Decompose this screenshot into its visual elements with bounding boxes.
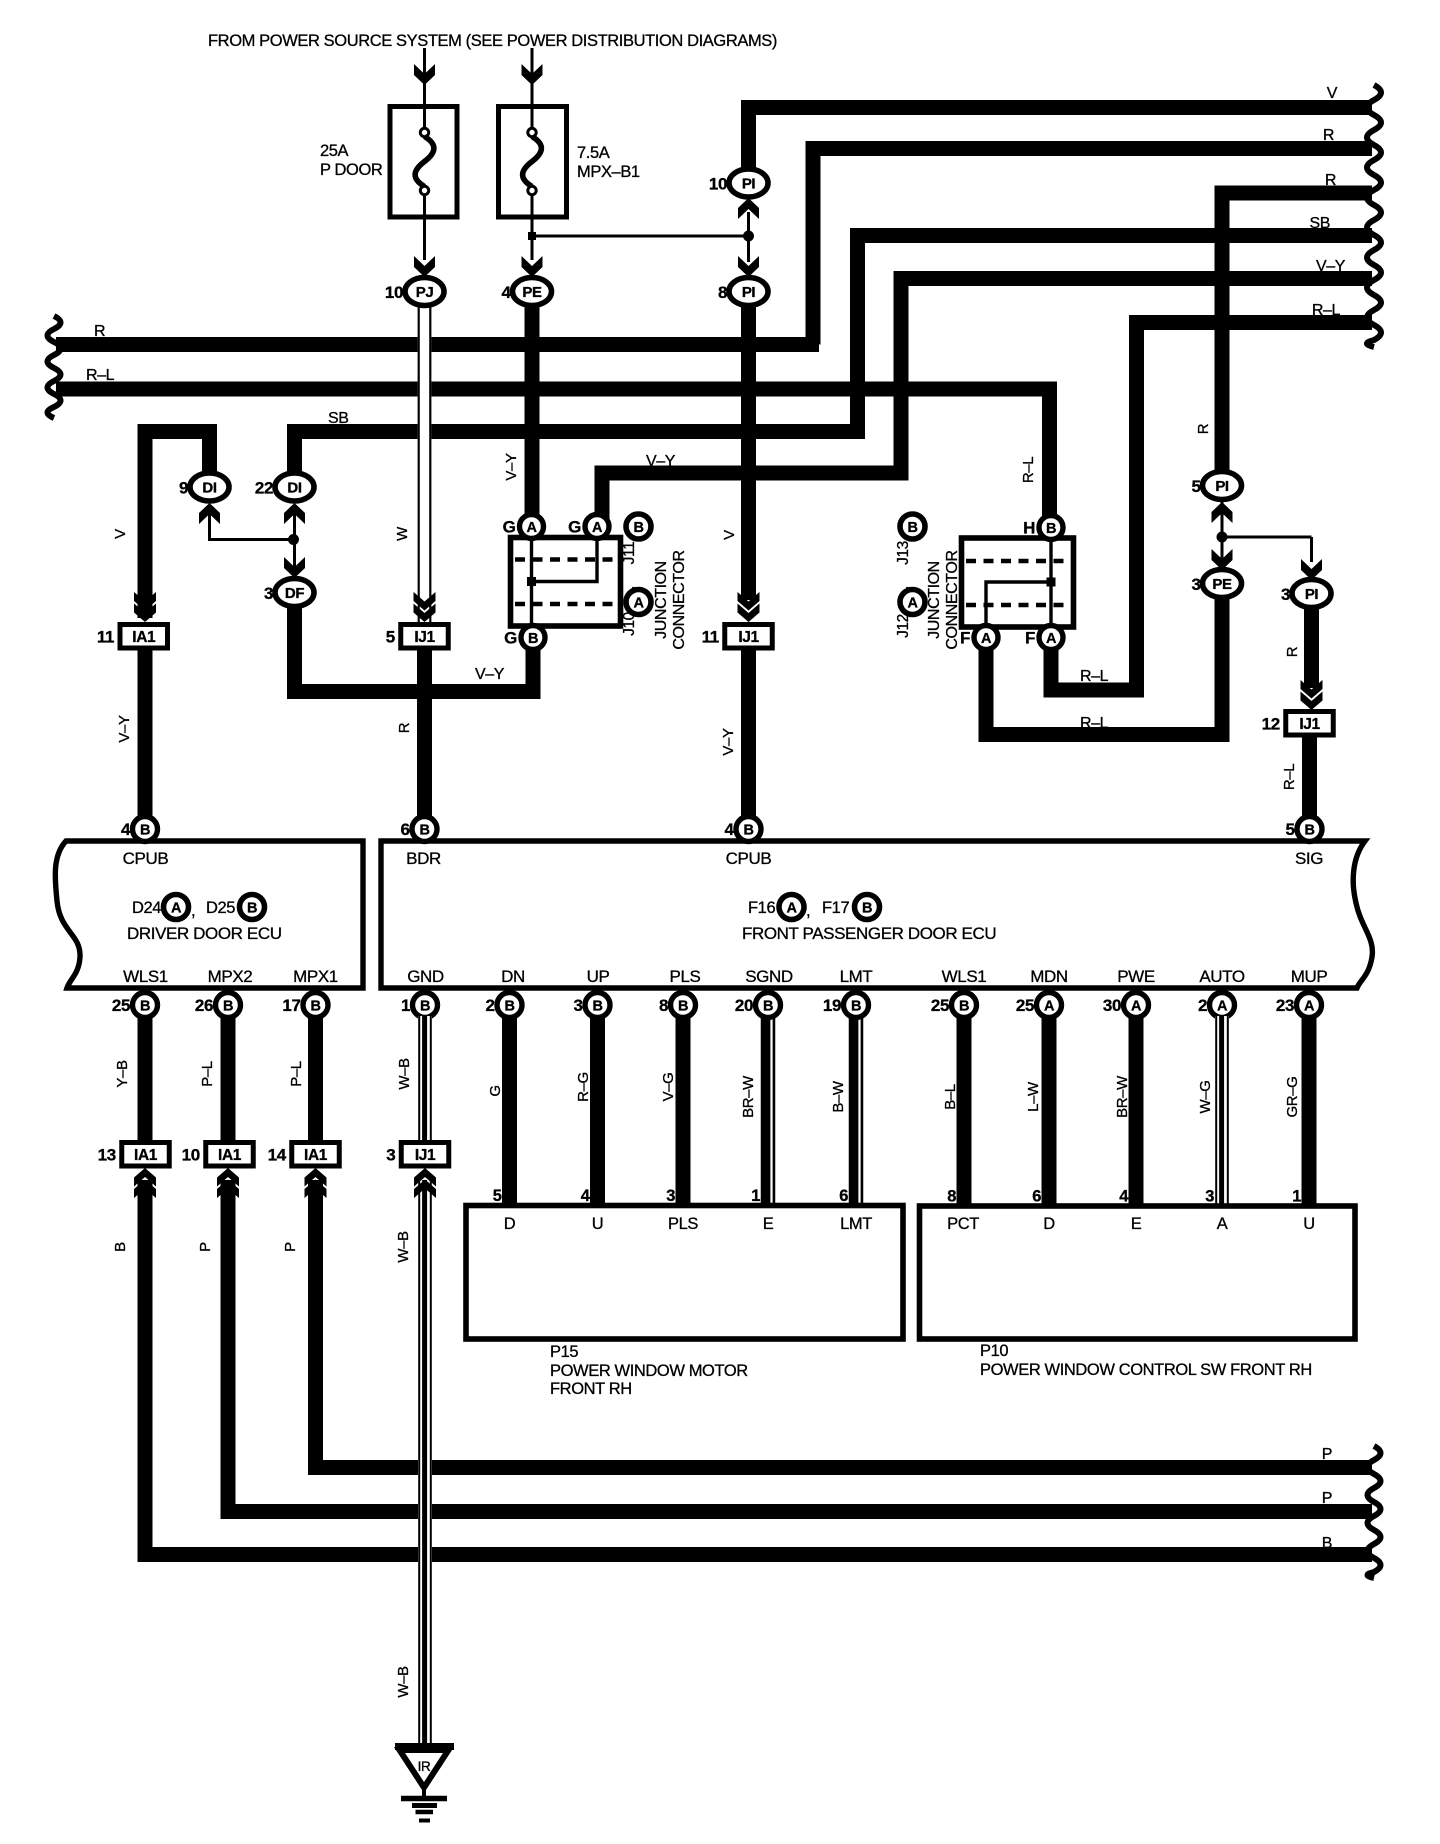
svg-text:30: 30 [1103,996,1121,1015]
svg-text:1: 1 [401,996,410,1015]
svg-text:R–L: R–L [1080,668,1109,685]
svg-text:DI: DI [202,480,216,497]
arrow up into connector 9 DI [199,503,220,524]
svg-text:8: 8 [659,996,668,1015]
svg-text:3: 3 [573,996,582,1015]
svg-text:LMT: LMT [840,967,873,986]
connector 10 IA1 [206,1143,254,1167]
svg-text:V–Y: V–Y [503,453,520,481]
svg-text:A: A [907,596,918,612]
svg-text:W–G: W–G [1197,1081,1214,1114]
svg-text:B: B [419,823,429,839]
svg-text:11: 11 [97,628,114,647]
svg-text:P15: P15 [550,1343,578,1361]
junction dot at PI column branch [743,231,754,242]
svg-text:B: B [528,631,538,647]
wire W-B from 3 IJ1 to ground (white with stripe) [418,1180,432,1743]
svg-text:U: U [1303,1215,1315,1233]
svg-text:3: 3 [264,584,273,603]
svg-text:MUP: MUP [1291,967,1328,986]
svg-text:WLS1: WLS1 [123,967,168,986]
svg-text:2: 2 [485,996,494,1015]
svg-text:7.5A: 7.5A [577,144,610,162]
svg-text:A: A [592,520,603,536]
svg-text:R: R [1323,127,1334,144]
component box P15 POWER WINDOW MOTOR FRONT RH [466,1206,903,1340]
svg-text:A: A [981,631,992,647]
svg-text:9: 9 [179,479,188,498]
svg-text:G: G [504,629,517,648]
svg-text:DI: DI [287,480,301,497]
svg-text:25: 25 [931,996,949,1015]
svg-text:V–Y: V–Y [720,728,737,756]
arrow up into connector 10 PI [738,198,759,219]
svg-text:SGND: SGND [745,967,793,986]
wire link 22 DI down to 3 DF [293,505,296,576]
svg-text:10: 10 [182,1146,200,1165]
junction dot at fuse F2 branch [528,232,536,240]
svg-text:J11: J11 [621,542,638,565]
svg-text:W–B: W–B [396,1058,413,1090]
svg-text:R: R [94,323,105,340]
svg-text:R: R [1284,646,1301,657]
svg-text:3: 3 [1205,1188,1214,1206]
svg-text:DF: DF [285,585,304,602]
svg-text:3: 3 [666,1187,675,1205]
svg-text:P: P [1322,1446,1332,1463]
junction connector J10/J11 internal busbar [530,539,533,625]
arrow up into connector 5 PI [1212,502,1233,523]
svg-text:10: 10 [385,283,403,302]
svg-text:WLS1: WLS1 [942,967,987,986]
squiggle right bus ends [1367,85,1381,347]
arrow up into 10 IA1 [217,1168,239,1187]
svg-text:A: A [1217,999,1228,1015]
svg-text:B: B [420,999,430,1015]
svg-text:F16: F16 [748,899,775,917]
svg-text:FRONT PASSENGER DOOR ECU: FRONT PASSENGER DOOR ECU [742,924,996,943]
svg-text:25: 25 [112,996,130,1015]
svg-text:2: 2 [1198,996,1207,1015]
connector 13 IA1 [122,1143,170,1167]
svg-text:17: 17 [282,996,300,1015]
junction connector J12/J13 box [962,538,1074,627]
svg-text:P DOOR: P DOOR [320,161,383,179]
svg-text:R–L: R–L [1020,457,1037,483]
svg-text:V–Y: V–Y [116,715,133,743]
wire GR-G MUP to switch pin 1 [1302,1015,1317,1205]
svg-text:SB: SB [328,410,349,427]
svg-text:P–L: P–L [288,1061,305,1087]
wire bus V (10 PI feed to right edge) [749,108,1373,177]
svg-text:IJ1: IJ1 [415,1147,436,1164]
wire R from 3 PI down to 12 IJ1 [1304,606,1319,688]
wire V-G PLS to motor pin 3 [676,1015,691,1205]
junction connector J12/J13 internal busbar [1049,540,1052,626]
wire H-B junction feed lower part [1042,500,1057,520]
svg-text:DN: DN [501,967,525,986]
wire link 9 DI to junction below [210,505,294,540]
svg-text:IJ1: IJ1 [1299,716,1320,733]
svg-text:PI: PI [742,284,756,301]
svg-text:B: B [1322,1535,1332,1552]
svg-text:14: 14 [268,1146,287,1165]
wire 12 IJ1 down to passenger ECU pin 5 SIG [1302,735,1317,820]
arrow down into connector 3 PI [1301,559,1322,580]
connector 12 IJ1 [1286,712,1334,736]
svg-text:A: A [1304,999,1315,1015]
wire link below 5 PI [1221,500,1224,568]
arrow up into connector 22 DI [284,503,305,524]
svg-text:PI: PI [1305,586,1319,603]
connector 5 IJ1 [401,625,449,649]
svg-text:PI: PI [742,176,756,193]
svg-text:22: 22 [255,479,273,498]
wire P-L MPX1 to 14 IA1 [308,1015,323,1142]
svg-text:V–G: V–G [660,1073,677,1102]
svg-text:SB: SB [1309,215,1330,232]
wire link 10 PI to 8 PI [747,212,750,262]
svg-text:B: B [1304,823,1314,839]
svg-text:8: 8 [947,1188,956,1206]
svg-text:F: F [1025,629,1035,648]
svg-text:1: 1 [1292,1188,1301,1206]
svg-text:E: E [1131,1215,1142,1233]
arrow into 5 IJ1 (on white wire) [414,604,436,623]
wire feed into fuse 25A [423,48,426,106]
svg-text:SIG: SIG [1295,849,1323,868]
svg-text:Y–B: Y–B [114,1060,131,1088]
wire P-L MPX2 to 10 IA1 [221,1015,236,1142]
svg-text:FRONT RH: FRONT RH [550,1380,632,1398]
svg-text:R–G: R–G [575,1072,592,1102]
svg-text:MPX–B1: MPX–B1 [577,163,640,181]
wire bus R lower (to 5 PI) [1222,193,1372,478]
svg-text:CPUB: CPUB [726,849,772,868]
svg-text:D25: D25 [206,899,235,917]
wire BR-W PWE to switch pin 4 [1129,1015,1144,1205]
svg-text:B: B [112,1242,129,1252]
svg-text:H: H [1023,519,1035,538]
svg-text:PE: PE [1212,576,1232,593]
wire L-W MDN to switch pin 6 [1042,1015,1057,1205]
connector 14 IA1 [292,1143,340,1167]
wire bus R-L left (to junction pin H) [56,389,1050,518]
wire V-Y from 3 DF to junction pin G-B [295,606,534,692]
svg-text:B: B [959,999,969,1015]
connector 11 IA1 [120,625,168,649]
junction connector J12/J13 dashed rows [966,559,1068,564]
connector 3 IJ1 [401,1143,449,1167]
svg-text:4: 4 [581,1187,591,1205]
svg-text:3: 3 [386,1146,395,1165]
wire below 13 IA1 to bus B [145,1180,1372,1555]
svg-text:25A: 25A [320,142,349,160]
wire R-G UP to motor pin 4 [590,1015,605,1205]
svg-text:PCT: PCT [947,1215,979,1233]
svg-text:A: A [1046,631,1057,647]
svg-text:20: 20 [735,996,753,1015]
svg-text:A: A [1044,999,1055,1015]
svg-text:8: 8 [718,283,727,302]
svg-text:MDN: MDN [1030,967,1068,986]
svg-text:POWER WINDOW CONTROL SW FRONT: POWER WINDOW CONTROL SW FRONT RH [980,1361,1312,1379]
component box P10 POWER WINDOW CONTROL SW FRONT RH [920,1206,1356,1339]
junction dot below 5 PI [1217,532,1228,543]
svg-text:12: 12 [1262,715,1280,734]
wire W-B GND to 3 IJ1 (white with stripe) [418,1016,432,1142]
svg-text:1: 1 [751,1187,760,1205]
svg-text:B: B [763,999,773,1015]
wire below 14 IA1 to bus P1 [316,1180,1373,1468]
wire feed into fuse 7.5A [531,48,534,106]
svg-text:IA1: IA1 [132,629,156,646]
svg-text:25: 25 [1016,996,1034,1015]
svg-text:R–L: R–L [1312,302,1341,319]
connector 11 IJ1 [725,625,773,649]
wire bus R upper (to left R bus via vertical) [813,149,1372,345]
svg-text:CONNECTOR: CONNECTOR [944,550,961,649]
arrow up into 3 IJ1 [414,1168,436,1187]
svg-text:POWER WINDOW MOTOR: POWER WINDOW MOTOR [550,1362,748,1380]
svg-text:B: B [907,520,917,536]
svg-text:B: B [247,901,257,917]
arrow into fuse 25A [414,64,435,85]
svg-text:R–L: R–L [1080,715,1109,732]
wire branch to 3 PI [1222,536,1312,539]
svg-text:W–B: W–B [395,1666,412,1698]
svg-text:4: 4 [121,820,131,839]
svg-text:R–L: R–L [1281,764,1298,790]
svg-text:P: P [282,1242,299,1252]
svg-text:G: G [487,1085,504,1096]
svg-text:L–W: L–W [1025,1081,1042,1112]
svg-text:GND: GND [407,967,444,986]
svg-text:B: B [1046,521,1056,537]
arrow into connector PJ [414,256,435,277]
wire bus V-Y (to junction connector pin A) [602,279,1372,521]
svg-text:B: B [743,823,753,839]
svg-text:IA1: IA1 [134,1147,158,1164]
svg-text:J12: J12 [895,614,912,638]
svg-text:6: 6 [400,820,409,839]
svg-text:PE: PE [522,284,542,301]
ECU box FRONT PASSENGER DOOR ECU [381,841,1372,988]
wire R-L from 3 PE to junction pin F left [986,596,1222,735]
svg-text:BR–W: BR–W [740,1075,757,1118]
svg-text:IA1: IA1 [218,1147,242,1164]
svg-text:A: A [171,901,182,917]
arrow up into 13 IA1 [134,1168,156,1187]
svg-text:CPUB: CPUB [123,849,169,868]
svg-text:GR–G: GR–G [1284,1077,1301,1118]
svg-text:B: B [504,999,514,1015]
svg-text:D: D [1043,1215,1055,1233]
svg-text:J13: J13 [895,541,912,565]
svg-text:B: B [223,999,233,1015]
wire fuse F2 to connector PE [531,217,534,260]
svg-text:A: A [1131,999,1142,1015]
svg-text:R–L: R–L [86,367,115,384]
squiggle left bus ends [48,316,61,418]
svg-text:PWE: PWE [1117,967,1155,986]
arrow down into connector 3 DF [284,557,305,578]
svg-text:3: 3 [1281,585,1290,604]
svg-text:P10: P10 [980,1342,1008,1360]
svg-text:IJ1: IJ1 [414,629,435,646]
fuse F1 25A P DOOR [390,107,457,218]
svg-text:5: 5 [386,628,395,647]
svg-text:G: G [568,518,581,537]
arrow into connector 11 IA1 [134,604,156,623]
junction dot 9DI/22DI link [288,534,299,545]
svg-text:PI: PI [1215,478,1229,495]
svg-text:PLS: PLS [670,967,701,986]
svg-text:V–Y: V–Y [646,453,676,470]
svg-text:A: A [786,901,797,917]
wire below 10 IA1 to bus P2 [228,1180,1372,1512]
svg-text:A: A [526,520,537,536]
svg-text:G: G [503,518,516,537]
junction connector J10/J11 dashed rows [515,557,616,562]
svg-text:5: 5 [1191,477,1200,496]
arrow down into connector 3 PE [1212,549,1233,570]
svg-text:R: R [396,722,413,733]
wire G DN to motor pin 5 [502,1015,517,1205]
svg-text:D: D [504,1215,516,1233]
svg-text:4: 4 [724,820,734,839]
wire fuse F1 to connector PJ [423,217,426,260]
svg-text:26: 26 [195,996,213,1015]
svg-text:R: R [1195,423,1212,434]
wire bus SB [295,236,1373,488]
fuse F2 7.5A MPX-B1 [499,107,567,218]
svg-text:B: B [633,520,643,536]
svg-text:BDR: BDR [406,849,441,868]
wire bus R-L (to junction connector pin F right) [1051,323,1372,691]
svg-text:U: U [592,1215,604,1233]
arrow up into 14 IA1 [305,1168,327,1187]
svg-text:R: R [1325,172,1336,189]
wire V from 8 PI down to 11 IJ1 [741,305,756,600]
svg-text:V: V [721,530,738,540]
wire V-Y from PE down to junction connector pin A [525,305,540,520]
wire B-W LMT to motor pin 6 (striped) [849,1015,864,1205]
svg-text:FROM POWER SOURCE SYSTEM (SEE: FROM POWER SOURCE SYSTEM (SEE POWER DIST… [208,32,777,50]
svg-text:,: , [191,902,195,920]
svg-text:B: B [140,999,150,1015]
svg-text:A: A [633,596,644,612]
wire branch fuse F2 to PI column [532,235,749,238]
svg-text:6: 6 [1032,1188,1041,1206]
svg-text:CONNECTOR: CONNECTOR [671,550,688,649]
svg-text:DRIVER DOOR ECU: DRIVER DOOR ECU [127,924,282,943]
svg-text:W: W [394,526,411,541]
svg-text:B: B [851,999,861,1015]
svg-text:IA1: IA1 [304,1147,328,1164]
svg-text:10: 10 [709,175,727,194]
svg-text:JUNCTION: JUNCTION [653,561,670,639]
svg-text:11: 11 [702,628,719,647]
arrow into fuse 7.5A [522,64,543,85]
arrow down into connector 8 PI [738,256,759,277]
arrow into connector 12 IJ1 [1301,692,1323,711]
arrow into connector PE [522,256,543,277]
svg-text:V–Y: V–Y [1316,258,1346,275]
wire B-L WLS1 to switch pin 8 [957,1015,972,1205]
svg-text:IR: IR [418,1759,431,1774]
svg-text:BR–W: BR–W [1114,1075,1131,1118]
svg-text:13: 13 [98,1146,116,1165]
wire 11 IA1 down to driver ECU pin 4 [138,648,153,820]
svg-text:B: B [310,999,320,1015]
svg-text:F: F [960,629,970,648]
squiggle bottom-right bus ends [1368,1446,1381,1578]
svg-text:B–W: B–W [830,1080,847,1113]
svg-text:4: 4 [1119,1188,1129,1206]
junction connector J10/J11 box [511,538,621,627]
svg-text:JUNCTION: JUNCTION [926,561,943,639]
svg-text:PLS: PLS [668,1215,698,1233]
wire bus R left [56,337,819,352]
wire W-G AUTO to switch pin 3 (white with stripe) [1215,1016,1229,1205]
svg-text:MPX1: MPX1 [293,967,338,986]
svg-text:PJ: PJ [416,284,434,301]
svg-text:B: B [592,999,602,1015]
arrow into connector 11 IJ1 [738,604,760,623]
svg-text:F17: F17 [822,899,849,917]
svg-text:AUTO: AUTO [1199,967,1244,986]
svg-text:LMT: LMT [840,1215,872,1233]
svg-text:MPX2: MPX2 [208,967,253,986]
svg-text:5: 5 [1285,820,1294,839]
svg-text:,: , [806,902,810,920]
ECU box DRIVER DOOR ECU [55,841,363,988]
wire Y-B WLS1 to 13 IA1 [138,1015,153,1142]
svg-text:P: P [1322,1490,1332,1507]
wire W from 10 PJ to 5 IJ1 (white) [418,306,432,624]
svg-text:23: 23 [1276,996,1294,1015]
wire BR-W SGND to motor pin 1 (striped) [761,1015,776,1205]
svg-text:V–Y: V–Y [475,666,505,683]
svg-text:6: 6 [839,1187,848,1205]
svg-text:B: B [140,823,150,839]
wire 11 IJ1 down to passenger ECU pin 4 [741,648,756,820]
svg-text:B–L: B–L [942,1084,959,1110]
svg-text:W–B: W–B [395,1231,412,1263]
svg-text:B: B [862,901,872,917]
ground IR symbol [395,1743,454,1750]
svg-text:E: E [763,1215,774,1233]
svg-text:V: V [112,529,129,539]
svg-text:3: 3 [1191,575,1200,594]
svg-text:P: P [197,1242,214,1252]
svg-text:UP: UP [587,967,610,986]
wire left V inverted-U to 9 DI and 11 IA1 [145,432,210,619]
wire W column 5 IJ1 down to BDR pin 6 [417,648,432,820]
svg-text:IJ1: IJ1 [738,629,759,646]
svg-text:A: A [1217,1215,1228,1233]
svg-text:V: V [1327,85,1338,102]
svg-text:5: 5 [493,1187,502,1205]
svg-text:B: B [678,999,688,1015]
svg-text:P–L: P–L [199,1061,216,1087]
svg-text:19: 19 [823,996,841,1015]
svg-text:D24: D24 [132,899,161,917]
